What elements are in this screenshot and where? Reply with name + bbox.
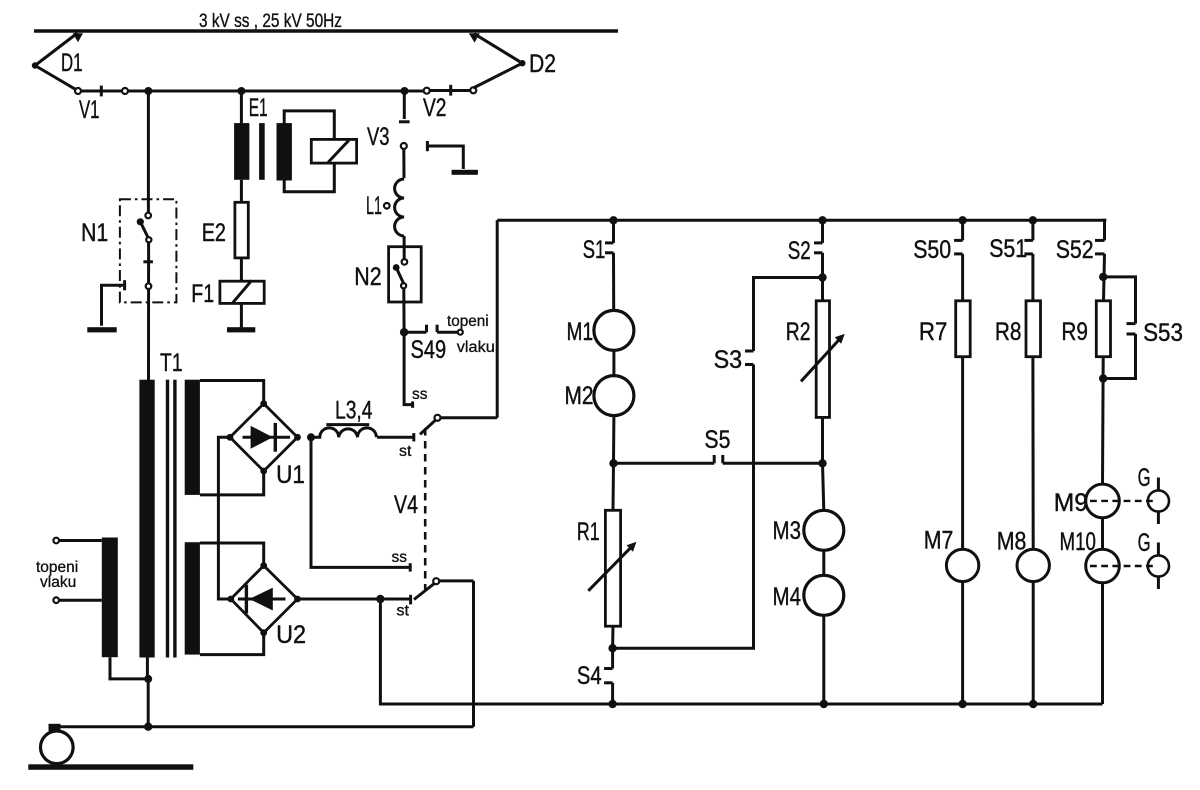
resistor R8 [1026,301,1041,357]
motor M4 [804,575,844,615]
wire S52 to R9 [1104,254,1105,301]
switch S51 [1024,240,1033,254]
N1 ground side contact [102,280,125,326]
node S2/S3 [818,273,826,281]
svg-text:topeni: topeni [447,313,489,330]
svg-text:S3: S3 [714,346,743,374]
wire L1 to N2 [403,236,406,259]
mechanical linkage (dashed) of V4 [424,428,427,594]
st contact tick (lower) [409,595,412,605]
svg-text:V3: V3 [367,123,390,151]
switch S4 [604,669,613,683]
wire R9 node to M9 [1101,357,1105,485]
breaker V3 [399,91,410,178]
wire R7 to M7 [961,357,964,549]
E1 secondary loop wire [284,111,334,192]
E1 secondary winding [277,123,292,180]
svg-text:V1: V1 [79,96,100,124]
node R9/S53 top [1099,273,1107,281]
branch S52 from bus end [1105,220,1107,240]
node M8 bottom [1029,700,1037,708]
heating winding bottom wire [110,657,148,679]
svg-text:L3,4: L3,4 [335,397,373,425]
catenary wire 3kV/25kV [34,29,618,32]
node M7 bottom [958,700,966,708]
svg-text:R8: R8 [995,318,1022,346]
ground bar near V3 [452,170,478,175]
rectifier U2 loop bottom [200,633,264,655]
wire R1 to S4 node [611,626,614,648]
node U1 output [307,433,315,441]
svg-text:S52: S52 [1056,236,1094,264]
current transformer E1 primary winding [234,123,249,180]
svg-text:R7: R7 [919,318,948,346]
resistor R7 [956,301,971,357]
svg-text:T1: T1 [160,349,183,377]
motor M9 [1086,484,1120,518]
N1 top contact [145,213,151,219]
T1 core [166,380,177,658]
svg-text:V2: V2 [423,94,447,122]
T1 secondary winding lower [185,542,200,654]
ground bar of N1 [87,327,116,332]
wire S1 to M1 [612,253,615,311]
wire U1 output down to lower ss contact [311,437,410,567]
node at E1 branch [237,87,245,95]
svg-text:L1: L1 [366,192,382,220]
rectifier U2 loop top [200,543,264,566]
branch S51 wire from bus [1031,220,1034,240]
node st junction [376,595,384,603]
svg-text:D1: D1 [61,49,83,77]
motor M8 [1017,549,1049,581]
ss contact tick (upper changeover) [411,401,414,407]
wheel brush contact [49,724,61,731]
svg-text:V4: V4 [394,491,418,519]
rail bus wire [49,725,473,728]
traction circuit top bus [497,219,1106,222]
T1 primary bottom wire [146,658,149,679]
svg-text:R1: R1 [577,518,600,546]
wire S50 to R7 [961,254,964,301]
svg-text:E1: E1 [249,94,268,122]
svg-text:S50: S50 [913,236,951,264]
resistor R9 [1096,301,1110,357]
wire M9 to M10 [1101,517,1104,549]
svg-text:ss: ss [392,549,408,566]
svg-text:M2: M2 [565,382,594,410]
inductor L1 [395,179,405,236]
N1 blade [137,218,152,242]
svg-text:M10: M10 [1060,528,1096,556]
branch S2 wire from bus [821,220,824,243]
svg-text:M1: M1 [567,318,594,346]
changeover switch V4 lower blade [414,578,439,599]
node at N1 branch [144,87,152,95]
node R9 bottom [1099,374,1107,382]
svg-text:st: st [397,603,410,620]
wire U1 left vertex down to U2 left vertex [218,437,230,599]
svg-text:M4: M4 [773,583,802,611]
wire st junction down to negative bus [380,599,1102,704]
switch S1 [605,243,614,253]
wire U2 output to st contact (lower) [298,598,411,601]
wire T1 bottom to rail bus [147,679,150,727]
main roof bus wire [81,90,424,93]
resistor E2 [235,202,248,258]
node M4 bottom [820,700,828,708]
N1 lower contact [146,283,152,289]
svg-text:S2: S2 [788,237,811,265]
wire F1 to ground [240,303,243,327]
heating terminal lower [53,597,101,603]
T1 train-heating winding [102,538,118,658]
svg-text:M9: M9 [1054,489,1088,517]
svg-text:M3: M3 [773,517,802,545]
wire E1 to E2 [240,180,243,203]
wire bus to T1 primary [147,91,150,213]
svg-text:S53: S53 [1143,319,1183,347]
node S4 bottom [608,700,616,708]
rail [28,764,193,770]
dashed link M10 to generator [1090,565,1157,567]
node R1/S3 [608,644,616,652]
T1 primary winding [139,380,154,658]
wire R8 to M8 [1031,357,1034,549]
wire M4 to negative bus [822,615,825,704]
node M2/R1/S5 [609,459,617,467]
wire S3 branch horizontal [754,278,823,352]
svg-text:U2: U2 [276,621,306,649]
variable resistor R2 [801,301,845,418]
return riser to rail bus [472,581,475,727]
switch S5 crossover [614,455,823,463]
svg-text:st: st [399,443,412,460]
heating terminal top [53,538,101,544]
svg-text:M8: M8 [997,528,1027,556]
wire M2 down to R1 node [612,416,615,464]
svg-text:vlaku: vlaku [40,574,76,591]
motor M1 [594,310,634,350]
wire S49 node down to ss contact [404,332,413,404]
branch S1 wire from bus [612,220,615,243]
switch S3 [745,351,754,365]
relay F1 (box with slash) [220,280,264,303]
svg-text:R2: R2 [786,318,811,346]
branch S50 wire from bus [961,220,964,240]
svg-text:S49: S49 [411,336,447,364]
ground bar of F1 [227,327,255,332]
motor M10 [1086,549,1120,583]
motor M2 [594,376,634,416]
node rail bus [144,723,152,731]
riser to traction bus [496,220,499,417]
grounding switch N1 (dash-dot enclosure) [120,199,176,302]
ground stub right of V3 [427,141,463,169]
rectifier bridge U1 [227,400,301,474]
wire R2 to S5 node [821,417,824,463]
wheel [41,731,74,764]
T1 secondary winding upper [185,380,200,495]
svg-text:F1: F1 [191,280,214,308]
wire S4 to negative bus [611,683,614,704]
disconnector V2 [424,85,477,96]
svg-text:G: G [1138,464,1151,492]
switch S50 [954,240,963,254]
wire M8 to negative bus [1032,582,1035,704]
svg-text:N1: N1 [81,219,108,247]
core bar of L3,4 [326,423,369,426]
wire L3,4 to st contact (upper changeover) [377,436,414,439]
pantograph D2 [469,33,526,88]
S53 parallel loop bottom [1103,334,1135,379]
rectifier U1 loop bottom [200,471,264,495]
switch S2 [814,243,823,253]
small circle after L1 label [384,203,390,209]
wire blade to right riser [441,416,498,419]
changeover switch V4 upper blade [420,415,441,435]
pantograph D1 [32,33,83,91]
E1 core [259,123,265,180]
wire M1 to M2 [612,350,615,375]
st contact tick (upper) [412,433,415,441]
relay coil of V3 (box with slash) [311,139,356,163]
rectifier bridge U2 [227,562,300,636]
motor M3 [804,510,844,550]
motor M7 [946,549,978,581]
wire S51 to R8 [1031,254,1034,301]
svg-text:ss: ss [412,386,428,403]
wire S2 to S3 node [821,253,824,301]
rectifier U1 loop top [200,381,264,404]
wire M10 to negative bus [1101,582,1104,704]
switch S49 to train heating [404,325,463,335]
svg-text:S5: S5 [704,426,730,454]
N1 middle tick [143,260,153,263]
wire M7 to negative bus [961,582,964,704]
wire node to R1 [612,463,616,510]
svg-text:S4: S4 [577,662,602,690]
generator G upper [1148,478,1169,525]
svg-text:E2: E2 [202,219,226,247]
svg-text:S51: S51 [989,235,1027,263]
wire lower blade to return riser [439,579,473,582]
svg-text:N2: N2 [354,263,381,291]
switch N2 (boxed) [389,247,422,333]
node T1 bottom [144,675,152,683]
wire node to S4 [611,648,614,668]
ss contact tick (lower changeover) [409,563,412,571]
node at V3 branch [401,87,409,95]
svg-text:G: G [1138,529,1151,557]
wire E2 to F1 [240,258,243,281]
svg-text:D2: D2 [529,50,556,78]
svg-text:3 kV ss , 25 kV 50Hz: 3 kV ss , 25 kV 50Hz [199,11,342,32]
svg-text:M7: M7 [924,527,954,555]
wire S3 down to R1 bottom node [613,365,754,649]
switch S53 [1127,324,1136,334]
variable resistor R1 [588,510,636,626]
svg-text:R9: R9 [1061,318,1088,346]
disconnector V1 [75,86,128,97]
svg-text:vlaku: vlaku [457,339,495,356]
wire M3 to M4 [822,550,825,575]
switch S52 [1095,240,1105,254]
wire bus to E1 [240,91,243,124]
generator G lower [1148,543,1169,590]
svg-text:U1: U1 [276,461,305,489]
wire node to M3 [823,463,824,510]
S53 parallel loop top [1103,277,1135,324]
node S49 branch [400,328,408,336]
node R2/S5/M3 [818,459,826,467]
inductor L3,4 [313,428,376,437]
svg-text:S1: S1 [583,236,606,264]
dashed link M9 to generator [1090,500,1157,502]
